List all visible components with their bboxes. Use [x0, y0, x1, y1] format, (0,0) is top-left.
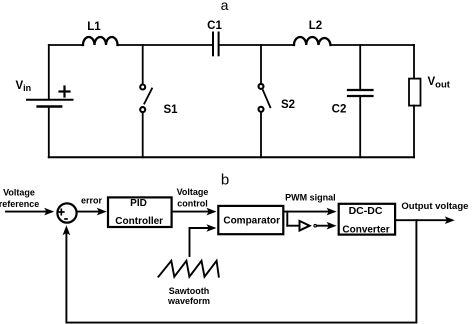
svg-text:Sawtooth: Sawtooth	[169, 286, 210, 296]
svg-text:Controller: Controller	[115, 216, 163, 227]
svg-text:L2: L2	[309, 20, 322, 32]
svg-text:error: error	[81, 196, 103, 206]
svg-text:Converter: Converter	[342, 224, 389, 235]
svg-text:C2: C2	[332, 104, 347, 116]
svg-text:a: a	[221, 0, 229, 13]
svg-text:Voltage: Voltage	[3, 187, 35, 197]
svg-text:waveform: waveform	[167, 296, 210, 306]
svg-text:PWM signal: PWM signal	[285, 192, 336, 202]
svg-text:PID: PID	[130, 198, 147, 209]
svg-text:C1: C1	[207, 20, 222, 32]
svg-text:Voltage: Voltage	[177, 187, 209, 197]
svg-text:DC-DC: DC-DC	[349, 205, 383, 217]
svg-text:S1: S1	[164, 104, 179, 116]
svg-text:b: b	[221, 172, 229, 189]
svg-text:Output voltage: Output voltage	[401, 201, 468, 212]
svg-text:Comparator: Comparator	[223, 216, 280, 227]
svg-text:reference: reference	[0, 199, 39, 209]
svg-text:S2: S2	[281, 99, 295, 111]
svg-text:L1: L1	[87, 21, 101, 33]
svg-text:control: control	[177, 199, 208, 209]
